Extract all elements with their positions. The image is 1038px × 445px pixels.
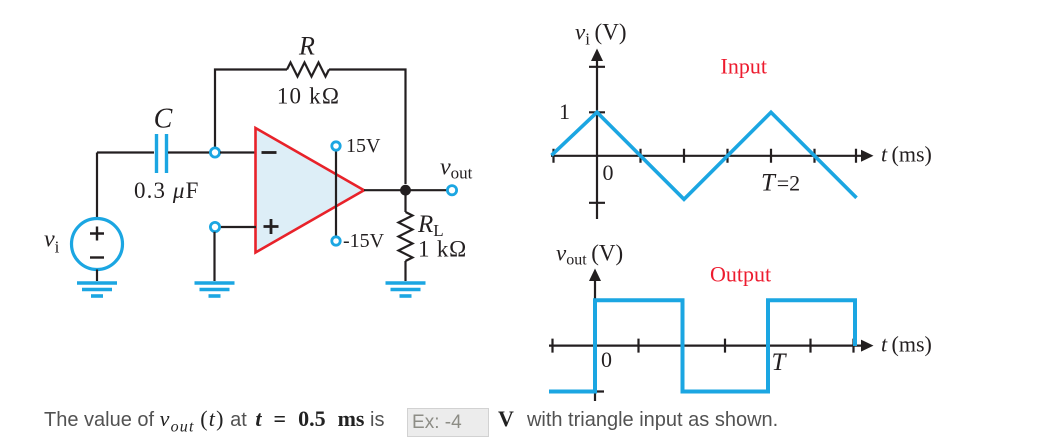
input graph y-axis ticks [589, 67, 605, 203]
wire: non-inverting input [220, 226, 256, 228]
wire: non-inverting input down to ground [213, 232, 215, 281]
svg-text:0.3 μF: 0.3 μF [134, 178, 199, 203]
node: output junction dot [400, 185, 411, 196]
label vout [440, 155, 473, 183]
label RL [417, 211, 444, 240]
wire: source bottom to ground [96, 270, 98, 282]
wire: feedback top from node A to resistor R [215, 70, 287, 148]
wire: junction down to RL [404, 190, 406, 212]
wire: capacitor to node A [168, 151, 210, 153]
ground: below non-inverting input [195, 283, 235, 296]
voltage source plus sign [90, 227, 104, 241]
capacitor C plates [157, 134, 167, 173]
svg-text:0: 0 [601, 347, 612, 372]
input graph x-axis ticks [554, 149, 857, 163]
value label 1 kΩ [418, 237, 467, 262]
node: non-inverting input terminal circle [210, 222, 219, 231]
output graph axis label t (ms) [881, 332, 932, 357]
svg-text:t (ms): t (ms) [881, 142, 932, 167]
input graph origin label 0 [603, 160, 614, 185]
output graph label vout (V) [556, 241, 623, 269]
svg-text:C: C [154, 104, 173, 135]
value label 0.3 µF [134, 178, 199, 203]
svg-text:vi (V): vi (V) [575, 20, 627, 49]
resistor RL zigzag [399, 212, 413, 261]
input graph tick label 1 [559, 99, 570, 124]
svg-text:t (ms): t (ms) [881, 332, 932, 357]
output graph x-axis ticks [553, 339, 854, 353]
output graph origin label 0 [601, 347, 612, 372]
svg-text:1: 1 [559, 99, 570, 124]
wire: source to capacitor [97, 151, 154, 153]
wire: op-amp power rail vertical [335, 150, 337, 237]
input graph axis label t (ms) [881, 142, 932, 167]
value label -15V [343, 230, 385, 252]
svg-text:vout (V): vout (V) [556, 241, 623, 269]
output graph label T [772, 349, 788, 376]
label R [298, 32, 315, 61]
output graph y-axis with arrow [589, 269, 604, 402]
label vi [44, 227, 60, 257]
svg-text:-15V: -15V [343, 230, 385, 252]
voltage source vi circle [72, 219, 123, 270]
output graph title Output [710, 262, 771, 287]
pin: +15V supply terminal [332, 142, 340, 150]
input graph label T=2 [761, 170, 800, 197]
svg-text:T: T [772, 349, 788, 376]
op-amp plus sign [264, 219, 279, 234]
svg-text:10 kΩ: 10 kΩ [277, 84, 340, 109]
output graph x-axis with arrow [549, 340, 874, 352]
input graph x-axis with arrow [551, 150, 874, 162]
wire: source top to capacitor wire [96, 153, 98, 219]
input graph y-axis with arrow [591, 49, 603, 220]
svg-text:Input: Input [721, 54, 767, 79]
voltage source minus sign [90, 256, 104, 258]
wire: node A to op-amp inverting input [220, 151, 256, 153]
node A: inverting input node circle [210, 148, 219, 157]
svg-text:T =2: T =2 [761, 170, 800, 197]
input graph title Input [721, 54, 767, 79]
svg-text:Output: Output [710, 262, 771, 287]
svg-text:1 kΩ: 1 kΩ [418, 237, 467, 262]
resistor R zigzag [287, 63, 329, 77]
question text row [44, 406, 1038, 443]
wire: op-amp output to vout terminal [364, 189, 447, 191]
input graph label vi (V) [575, 20, 627, 49]
output square waveform [549, 300, 855, 391]
svg-text:0: 0 [603, 160, 614, 185]
svg-text:vout: vout [440, 155, 473, 183]
svg-text:15V: 15V [346, 135, 381, 157]
wire: resistor R to output node [329, 70, 406, 185]
wire: RL to ground [404, 261, 406, 281]
node: vout open terminal [447, 186, 456, 195]
ground: below source vi [77, 283, 117, 296]
svg-text:R: R [298, 32, 315, 61]
ground: below RL [386, 283, 426, 296]
svg-text:vi: vi [44, 227, 60, 257]
input triangle waveform [552, 112, 857, 199]
value label 15V [346, 135, 381, 157]
op-amp minus sign [262, 151, 277, 154]
pin: -15V supply terminal [332, 237, 340, 245]
op-amp U1 triangle [256, 128, 365, 253]
value label 10 kΩ [277, 84, 340, 109]
label C [154, 104, 173, 135]
